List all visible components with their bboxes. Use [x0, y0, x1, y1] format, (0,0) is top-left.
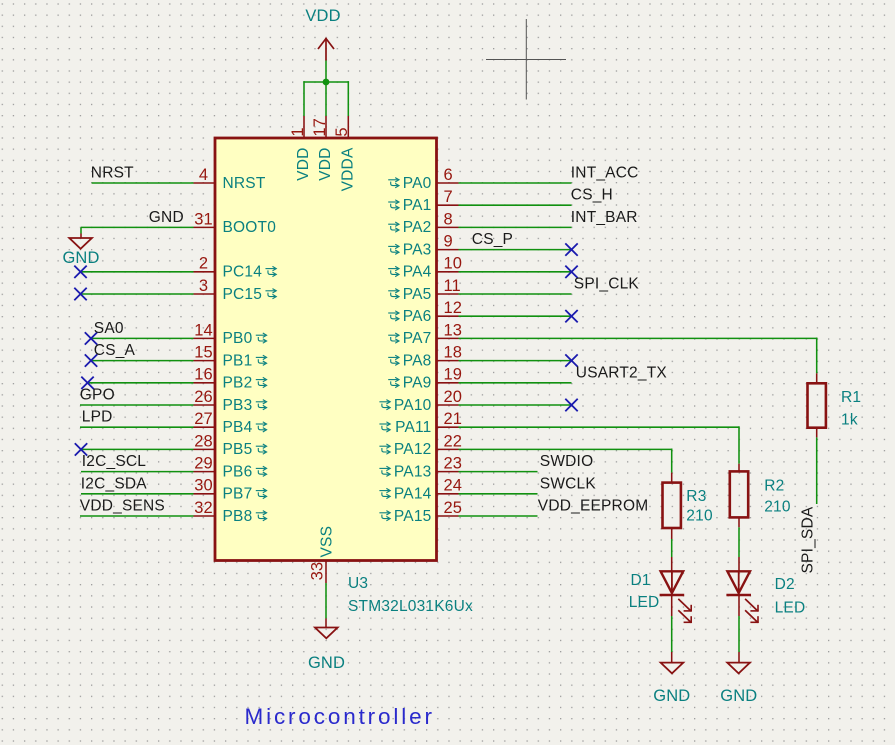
pin 10 stub: [437, 271, 459, 273]
wire BOOT0: [81, 226, 194, 228]
pin 31 stub: [194, 226, 216, 228]
svg-text:7: 7: [444, 188, 453, 206]
pin name arrow PA11: [379, 422, 390, 432]
svg-text:SPI_SDA: SPI_SDA: [800, 506, 817, 573]
svg-text:VDD: VDD: [295, 148, 312, 181]
pin name arrow PA0: [388, 178, 399, 188]
pin name arrow PA2: [388, 222, 399, 232]
pin name arrow PB8: [256, 511, 267, 521]
pin 14 stub: [194, 337, 216, 339]
svg-text:Microcontroller: Microcontroller: [245, 704, 435, 729]
svg-text:PA7: PA7: [403, 330, 432, 347]
no-connect PA6: [565, 310, 577, 322]
svg-text:PA14: PA14: [394, 486, 432, 503]
svg-text:USART2_TX: USART2_TX: [576, 364, 668, 381]
wire PA3: [459, 249, 572, 251]
pin name arrow PC14: [265, 266, 276, 276]
svg-text:8: 8: [444, 210, 453, 228]
pin 5 stub: [347, 116, 349, 138]
pin 12 stub: [437, 315, 459, 317]
svg-text:GND: GND: [62, 249, 99, 267]
svg-text:PB4: PB4: [223, 419, 253, 436]
wire VSS to ground: [325, 583, 327, 618]
resistor R2: [730, 471, 748, 517]
no-connect PA4: [565, 266, 577, 278]
svg-text:LED: LED: [629, 594, 660, 611]
pin 1 stub: [303, 116, 305, 138]
svg-text:PA9: PA9: [403, 375, 432, 392]
resistor R3 bottom pin: [671, 528, 673, 539]
svg-text:PA15: PA15: [394, 508, 432, 525]
svg-text:21: 21: [444, 410, 463, 428]
svg-text:22: 22: [444, 432, 463, 450]
ground (D2): [727, 663, 750, 674]
led D1 cathode pin: [671, 596, 673, 616]
svg-text:6: 6: [444, 166, 453, 184]
pin 9 stub: [437, 249, 459, 251]
wire R1 to SPI_SDA: [816, 437, 818, 504]
svg-text:I2C_SDA: I2C_SDA: [81, 475, 147, 492]
pin 32 stub: [194, 515, 216, 517]
pin name arrow PA6: [388, 311, 399, 321]
svg-text:25: 25: [444, 499, 463, 517]
ground stem (D1): [671, 652, 673, 663]
wire PA6: [459, 315, 572, 317]
wire D1 to ground: [671, 616, 673, 652]
svg-text:29: 29: [194, 455, 213, 473]
no-connect PB1: [85, 354, 97, 366]
svg-text:PA2: PA2: [403, 219, 432, 236]
wire PB1: [91, 360, 194, 362]
svg-text:CS_H: CS_H: [571, 187, 613, 204]
wire PB5: [81, 448, 194, 450]
svg-text:PA4: PA4: [403, 264, 432, 281]
ground (U3 VSS): [315, 628, 338, 639]
wire PB4: [80, 426, 194, 428]
svg-text:VSS: VSS: [319, 526, 336, 558]
pin 11 stub: [437, 293, 459, 295]
wire VDD bus horizontal: [304, 81, 348, 83]
svg-text:PB8: PB8: [223, 508, 253, 525]
svg-text:11: 11: [444, 277, 461, 295]
pin 28 stub: [194, 448, 216, 450]
svg-text:33: 33: [309, 562, 327, 581]
wire PA2: [459, 226, 572, 228]
svg-text:NRST: NRST: [223, 175, 266, 192]
svg-text:LPD: LPD: [82, 409, 113, 426]
pin 16 stub: [194, 382, 216, 384]
wire PB6: [81, 471, 194, 473]
pin name arrow PB4: [256, 422, 267, 432]
wire PB3: [80, 404, 194, 406]
pin 33 stub: [325, 561, 327, 584]
pin name arrow PA14: [379, 488, 390, 498]
led D2 anode pin: [738, 557, 740, 571]
svg-text:U3: U3: [348, 575, 368, 592]
svg-text:15: 15: [194, 344, 213, 362]
svg-text:VDDA: VDDA: [340, 147, 357, 191]
pin 25 stub: [437, 515, 459, 517]
pin name arrow PC15: [265, 289, 276, 299]
pin 24 stub: [437, 493, 459, 495]
resistor R1 top pin: [816, 373, 818, 383]
wire NRST: [92, 182, 194, 184]
led D1 anode pin: [671, 557, 673, 571]
svg-text:PB2: PB2: [223, 375, 253, 392]
svg-text:INT_BAR: INT_BAR: [571, 209, 638, 226]
svg-text:I2C_SCL: I2C_SCL: [82, 453, 146, 470]
wire PB2: [88, 382, 194, 384]
svg-text:5: 5: [333, 127, 351, 136]
wire VDD pin5 drop: [347, 81, 349, 116]
svg-text:VDD: VDD: [305, 7, 340, 25]
svg-text:26: 26: [194, 388, 213, 406]
wire PA12: [459, 448, 672, 450]
wire R2 to D2: [738, 527, 740, 557]
wire PC14: [81, 271, 194, 273]
svg-text:30: 30: [194, 477, 213, 495]
wire PA11: [459, 426, 740, 428]
resistor R1: [808, 383, 826, 427]
no-connect PA10: [565, 399, 577, 411]
svg-text:LED: LED: [775, 599, 806, 616]
pin name arrow PA9: [388, 377, 399, 387]
svg-text:NRST: NRST: [91, 165, 134, 182]
no-connect PB0: [85, 332, 97, 344]
svg-text:BOOT0: BOOT0: [223, 219, 277, 236]
resistor R2 bottom pin: [738, 517, 740, 527]
wire R3 to D1: [671, 539, 673, 557]
wire PA7 drop: [816, 338, 818, 374]
svg-text:210: 210: [686, 507, 713, 524]
svg-text:R1: R1: [841, 389, 861, 406]
pin name arrow PB6: [256, 466, 267, 476]
wire PA9: [459, 382, 572, 384]
pin name arrow PA7: [388, 333, 399, 343]
pin 30 stub: [194, 493, 216, 495]
resistor R1 bottom pin: [816, 428, 818, 438]
svg-text:9: 9: [444, 233, 453, 251]
svg-text:20: 20: [444, 388, 463, 406]
pin name arrow PB7: [256, 488, 267, 498]
pin 27 stub: [194, 426, 216, 428]
svg-text:PA13: PA13: [394, 463, 432, 480]
resistor R3 top pin: [671, 473, 673, 483]
led D2: [726, 571, 758, 623]
wire PA7: [459, 337, 817, 339]
svg-text:PC14: PC14: [223, 264, 263, 281]
svg-text:31: 31: [194, 210, 213, 228]
svg-text:13: 13: [444, 321, 463, 339]
wire D2 to ground: [738, 616, 740, 652]
pin 22 stub: [437, 448, 459, 450]
pin name arrow PA15: [379, 511, 390, 521]
wire PA12 drop: [671, 449, 673, 473]
svg-text:PA0: PA0: [403, 175, 432, 192]
pin 8 stub: [437, 226, 459, 228]
pin 15 stub: [194, 360, 216, 362]
svg-text:CS_A: CS_A: [94, 342, 136, 359]
svg-text:PA5: PA5: [403, 286, 432, 303]
led D1: [660, 571, 692, 623]
svg-text:GND: GND: [720, 687, 757, 705]
wire PA14: [459, 493, 538, 495]
wire PA5: [459, 293, 572, 295]
pin name arrow PA8: [388, 355, 399, 365]
svg-text:INT_ACC: INT_ACC: [571, 165, 639, 182]
svg-text:3: 3: [199, 277, 208, 295]
svg-text:GPO: GPO: [80, 387, 115, 404]
no-connect PB5: [75, 443, 87, 455]
svg-text:2: 2: [199, 255, 208, 273]
pin 6 stub: [437, 182, 459, 184]
svg-text:PA10: PA10: [394, 397, 432, 414]
pin 20 stub: [437, 404, 459, 406]
pin name arrow PB1: [256, 355, 267, 365]
svg-text:PC15: PC15: [223, 286, 263, 303]
wire PA4: [459, 271, 572, 273]
svg-text:24: 24: [444, 477, 463, 495]
svg-text:10: 10: [444, 255, 463, 273]
pin name arrow PB5: [256, 444, 267, 454]
pin name arrow PB0: [256, 333, 267, 343]
svg-text:STM32L031K6Ux: STM32L031K6Ux: [348, 598, 473, 615]
led D2 cathode pin: [738, 596, 740, 616]
svg-text:VDD_EEPROM: VDD_EEPROM: [538, 498, 649, 515]
ground (BOOT0): [69, 238, 92, 249]
pin 17 stub: [325, 116, 327, 138]
wire PB0: [91, 337, 194, 339]
ground stem (D2): [738, 652, 740, 663]
pin 3 stub: [194, 293, 216, 295]
svg-text:SWCLK: SWCLK: [540, 475, 597, 492]
svg-text:PB6: PB6: [223, 463, 253, 480]
svg-text:GND: GND: [653, 687, 690, 705]
pin name arrow PA1: [388, 200, 399, 210]
svg-text:PB0: PB0: [223, 330, 253, 347]
wire PA15: [459, 515, 538, 517]
resistor R2 top pin: [738, 464, 740, 472]
no-connect PC15: [74, 288, 86, 300]
svg-text:PA11: PA11: [395, 419, 431, 436]
no-connect PB2: [81, 377, 93, 389]
pin 7 stub: [437, 204, 459, 206]
pin 13 stub: [437, 337, 459, 339]
wire PB7: [81, 493, 194, 495]
wire PA0: [459, 182, 572, 184]
ground GND stem (U3): [325, 618, 327, 627]
svg-text:PA8: PA8: [403, 352, 432, 369]
pin 19 stub: [437, 382, 459, 384]
svg-text:D2: D2: [775, 576, 795, 593]
pin name arrow PA5: [388, 289, 399, 299]
power flag VDD: [318, 38, 334, 61]
svg-text:PA6: PA6: [403, 308, 432, 325]
wire PA1: [459, 204, 572, 206]
svg-text:SWDIO: SWDIO: [540, 453, 594, 470]
svg-text:12: 12: [444, 299, 463, 317]
pin 2 stub: [194, 271, 216, 273]
ic U3 body: [215, 138, 437, 561]
svg-text:14: 14: [194, 321, 213, 339]
pin name arrow PA3: [388, 244, 399, 254]
wire PA8: [459, 360, 572, 362]
wire VDD stem: [325, 61, 327, 83]
svg-text:1k: 1k: [841, 411, 858, 428]
svg-text:PA1: PA1: [403, 197, 432, 214]
svg-text:R3: R3: [686, 488, 706, 505]
no-connect PC14: [74, 266, 86, 278]
pin name arrow PA4: [388, 266, 399, 276]
wire PC15: [81, 293, 194, 295]
svg-text:D1: D1: [631, 572, 651, 589]
pin name arrow PA10: [379, 400, 390, 410]
wire VDD pin17 drop: [325, 82, 327, 116]
ground stem (BOOT0): [80, 234, 82, 239]
svg-text:VDD_SENS: VDD_SENS: [80, 498, 165, 515]
pin name arrow PA12: [379, 444, 390, 454]
wire GND drop: [80, 227, 82, 233]
svg-text:PB3: PB3: [223, 397, 253, 414]
svg-text:PB1: PB1: [223, 352, 253, 369]
junction: [323, 79, 330, 86]
pin name arrow PB2: [256, 377, 267, 387]
svg-text:28: 28: [194, 432, 213, 450]
svg-text:4: 4: [199, 166, 208, 184]
svg-text:18: 18: [444, 344, 463, 362]
wire PA13: [459, 471, 538, 473]
no-connect PA8: [565, 354, 577, 366]
svg-text:R2: R2: [764, 478, 784, 495]
svg-text:GND: GND: [149, 209, 184, 226]
svg-text:SA0: SA0: [94, 320, 124, 337]
svg-text:23: 23: [444, 455, 463, 473]
svg-text:PA12: PA12: [394, 441, 432, 458]
pin name arrow PB3: [256, 400, 267, 410]
pin 23 stub: [437, 471, 459, 473]
pin 4 stub: [194, 182, 216, 184]
svg-text:27: 27: [194, 410, 213, 428]
svg-text:GND: GND: [308, 654, 345, 672]
svg-text:PA3: PA3: [403, 241, 432, 258]
pin name arrow PA13: [379, 466, 390, 476]
svg-text:VDD: VDD: [317, 148, 334, 181]
svg-text:16: 16: [194, 366, 213, 384]
origin crosshair: [486, 19, 566, 100]
pin 26 stub: [194, 404, 216, 406]
svg-text:210: 210: [764, 499, 791, 516]
pin 18 stub: [437, 360, 459, 362]
wire PA11 drop: [738, 426, 740, 463]
wire PA10: [459, 404, 572, 406]
svg-text:PB7: PB7: [223, 486, 253, 503]
svg-text:1: 1: [289, 127, 307, 136]
svg-text:32: 32: [194, 499, 213, 517]
svg-text:PB5: PB5: [223, 441, 253, 458]
no-connect PA3: [565, 243, 577, 255]
ground (D1): [661, 663, 684, 674]
resistor R3: [663, 483, 681, 528]
pin 21 stub: [437, 426, 459, 428]
wire VDD pin1 drop: [303, 81, 305, 116]
svg-text:19: 19: [444, 366, 463, 384]
svg-text:17: 17: [311, 118, 329, 137]
wire PB8: [80, 515, 194, 517]
svg-text:CS_P: CS_P: [472, 231, 513, 248]
svg-text:SPI_CLK: SPI_CLK: [574, 276, 640, 293]
pin 29 stub: [194, 471, 216, 473]
